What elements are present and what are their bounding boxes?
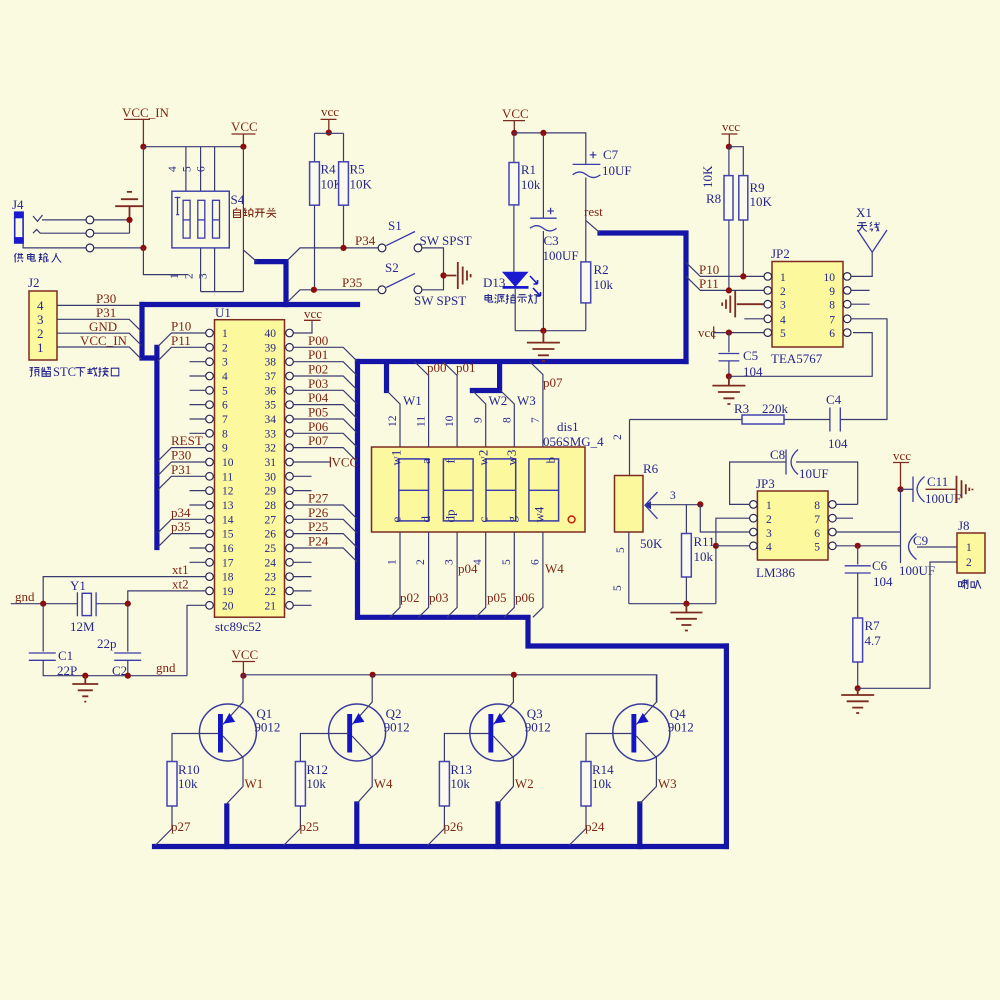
svg-text:W2: W2 [515,776,534,791]
header JP3 LM386 [756,476,828,580]
switch S1 [378,218,472,252]
svg-text:2: 2 [766,514,772,526]
wire J8 pin2 return [858,562,957,688]
pin circle U1-15 [206,530,214,538]
svg-text:30: 30 [265,471,277,483]
svg-text:37: 37 [265,371,277,383]
label p03 [429,590,449,605]
label P31 J2 [96,305,116,320]
svg-text:c: c [476,517,491,523]
label VCC U1 pin31 [332,455,359,470]
label W4 display [545,561,564,576]
svg-text:S2: S2 [385,260,399,275]
svg-text:6: 6 [196,166,208,172]
svg-text:2: 2 [415,559,427,565]
label 9 rotated [473,417,485,423]
wire rest bus entry [586,220,600,232]
wire U1 pin1 P10 [158,333,206,347]
wire U1 pin18 xt1 [43,577,206,604]
wire U1 pin17 stub [190,561,206,563]
label p34 U1 [171,505,191,520]
label W3 collector [658,776,677,791]
capacitor C8 [730,447,858,504]
pin circle U1-36 [286,387,294,395]
svg-text:p02: p02 [400,590,420,605]
svg-text:P30: P30 [171,448,191,463]
ground C5 [712,376,745,404]
wire U1 pin9 REST [158,448,206,462]
label 6 rotated [529,559,541,565]
label P06 [308,419,329,434]
label P11 [699,276,719,291]
pin circle U1-27 [286,516,294,524]
ground R7 [841,688,874,713]
svg-text:vcc: vcc [893,448,911,463]
svg-text:9012: 9012 [384,720,410,735]
svg-text:10K: 10K [750,194,773,209]
ground S1 S2 sideways [444,262,471,289]
wire S4 rail top [143,146,243,148]
label 预留STC下载接口 [30,365,119,379]
node VCC S4 junction [240,144,246,150]
svg-text:p05: p05 [487,590,507,605]
node C1 gnd junction [82,673,88,679]
svg-text:5: 5 [814,542,820,554]
label p00 [427,360,447,375]
label S4 pin1 [169,273,181,279]
svg-text:8: 8 [814,500,820,512]
capacitor C6 [845,546,893,618]
wire U1 pin34 P05 [293,419,357,433]
svg-text:10k: 10k [521,177,541,192]
svg-text:16: 16 [222,543,234,555]
wire amp gnd rail [629,603,716,605]
label U1 pin31 number [265,457,277,469]
svg-text:P10: P10 [171,319,191,334]
svg-text:6: 6 [829,328,835,340]
wire U1 pin5 stub [190,389,206,391]
svg-text:1: 1 [766,500,772,512]
svg-text:29: 29 [265,486,277,498]
svg-text:38: 38 [265,357,277,369]
resistor R2 [581,262,614,331]
svg-text:1: 1 [780,272,786,284]
svg-text:p01: p01 [456,360,476,375]
pin circle JP2-3 [764,300,772,308]
svg-text:1: 1 [966,542,972,554]
wire J2 pin1 VCC_IN [57,347,142,359]
svg-text:35: 35 [265,400,277,412]
svg-text:JP3: JP3 [756,476,775,491]
label p05 [487,590,507,605]
capacitor C3 [530,133,579,331]
label U1 pin32 number [265,443,277,455]
svg-text:W3: W3 [517,393,536,408]
power port VCC main [502,106,529,133]
svg-text:X1: X1 [856,205,872,220]
label U1 pin15 number [222,529,234,541]
label rest [584,204,603,219]
label 10 rotated [444,415,456,427]
transistor Q3 9012 [444,675,550,804]
label P04 [308,390,329,405]
wire JP3 pin5 [836,545,900,547]
svg-text:39: 39 [265,342,277,354]
wire U1 pin10 P30 [158,462,206,476]
wire display pin9 W2 [472,391,485,448]
svg-text:R6: R6 [643,461,659,476]
pin circle U1-4 [206,372,214,380]
svg-text:dp: dp [443,510,458,523]
svg-text:p34: p34 [171,505,191,520]
svg-text:50K: 50K [640,536,663,551]
wire U1 pin27 P26 [293,519,357,533]
label P26 [308,505,329,520]
label U1 pin26 number [265,529,277,541]
svg-text:31: 31 [265,457,277,469]
pin circle U1-29 [286,487,294,495]
svg-text:6: 6 [814,528,820,540]
pin circle U1-1 [206,329,214,337]
wire S4 pin3 bottom [214,248,216,292]
svg-text:vcc: vcc [321,104,339,119]
wire display pin1 [390,532,400,617]
pin circle JP3-1 [750,501,758,509]
svg-text:LM386: LM386 [756,565,796,580]
svg-text:P24: P24 [308,534,329,549]
svg-text:P10: P10 [699,262,719,277]
ground amp [670,604,702,631]
wire display pin2 p02 [419,532,429,617]
node vcc C5 junction [726,330,732,336]
label U1 pin21 number [265,600,277,612]
wire display pin7 p07 [530,362,543,448]
label P25 [308,519,328,534]
svg-text:23: 23 [265,572,277,584]
wire bus right vertical down [724,646,729,847]
transistor Q4 9012 [586,675,694,804]
ground inverted above J4 junction [115,192,144,220]
capacitor C5 [719,333,764,379]
label U1 pin7 number [222,414,228,426]
pin circle JP3-6 [829,528,837,536]
svg-text:15: 15 [222,529,234,541]
wire R6 wiper [645,504,700,506]
svg-text:32: 32 [265,443,277,455]
digit 1 [399,459,429,521]
svg-text:33: 33 [265,428,277,440]
svg-text:STC: STC [53,365,76,379]
ground power indicator [527,331,560,361]
ground crystal [72,676,98,702]
transistor Q2 9012 [300,675,409,804]
svg-text:R9: R9 [750,180,765,195]
label U1 pin33 number [265,428,277,440]
wire VCC emitter rail [243,675,656,703]
svg-text:10k: 10k [594,277,614,292]
digit 3 [486,459,516,521]
svg-text:7: 7 [814,514,820,526]
svg-text:S4: S4 [231,192,245,207]
wire bus top-right rest net [600,233,686,362]
svg-text:36: 36 [265,385,277,397]
pin circle U1-18 [206,573,214,581]
wire U1 pin2 P11 [158,347,206,361]
svg-text:10K: 10K [350,177,373,192]
pin circle U1-35 [286,401,294,409]
label U1 pin18 number [222,572,234,584]
capacitor C7 [573,147,632,262]
node vcc C11 [897,486,903,492]
label P01 [308,347,328,362]
svg-text:P01: P01 [308,347,328,362]
power port vcc JP2 pin5 [698,325,764,340]
svg-text:P02: P02 [308,362,328,377]
svg-text:22: 22 [265,586,277,598]
label xt1 [172,562,189,577]
wire U1 pin22 stub [293,590,311,592]
label U1 pin34 number [265,414,277,426]
wire JP2 pin9 stub [851,289,870,291]
label P03 [308,376,328,391]
svg-text:TEA5767: TEA5767 [771,351,823,366]
label P27 [308,491,329,506]
node R8 P11 [726,287,732,293]
svg-text:SW SPST: SW SPST [420,233,472,248]
svg-text:P06: P06 [308,419,329,434]
svg-text:p27: p27 [171,819,191,834]
diode D13 LED [483,272,541,331]
connector J2 [28,275,57,360]
label p04 [458,561,478,576]
svg-text:28: 28 [265,500,277,512]
svg-text:25: 25 [265,543,277,555]
pin circle U1-28 [286,501,294,509]
svg-text:3: 3 [766,528,772,540]
svg-text:VCC_IN: VCC_IN [80,333,128,348]
wire JP2 pin4 stub [744,318,764,320]
svg-text:W1: W1 [245,776,264,791]
wire S4 pin5 top [200,147,202,192]
label 3 rotated [444,559,456,565]
capacitor C2 [97,604,141,678]
wire S4 pin4 top [185,147,187,192]
connector J4 [12,197,24,243]
svg-text:17: 17 [222,557,234,569]
svg-text:xt1: xt1 [172,562,189,577]
resistor R13 [428,762,473,846]
node vcc R4R5 [326,130,332,136]
label W2 collector [515,776,534,791]
pin circle U1-10 [206,458,214,466]
transistor Q1 9012 [172,675,280,804]
svg-text:VCC: VCC [502,106,529,121]
wire S1 to ground [422,248,444,276]
wire U1 pin31 VCC [293,457,330,467]
label p02 [400,590,420,605]
label U1 pin27 number [265,514,277,526]
pin circle U1-24 [286,559,294,567]
pin circle JP3-3 [750,528,758,536]
label U1 pin5 number [222,385,228,397]
svg-text:10K: 10K [700,165,715,188]
pin circle U1-34 [286,415,294,423]
wire JP2 pin8 stub [851,303,870,305]
label 4 rotated [472,559,484,565]
label U1 pin35 number [265,400,277,412]
pin circle U1-22 [286,587,294,595]
svg-text:W4: W4 [374,776,393,791]
svg-text:3: 3 [444,559,456,565]
svg-text:2: 2 [184,273,196,279]
wire U1 pin28 P27 [293,505,357,519]
power port VCC transistors [232,647,259,676]
svg-text:26: 26 [265,529,277,541]
label wiper 3 [670,490,676,502]
label 5 rotated [501,559,513,565]
label P10 U1 [171,319,191,334]
crystal Y1 [43,578,128,634]
capacitor C4 [826,392,848,451]
label W1 [403,393,422,408]
svg-text:10k: 10k [450,776,470,791]
svg-text:9: 9 [829,286,835,298]
label 天线 [857,222,880,232]
wire display pin4 p04 [476,532,486,617]
wire U1 pin7 stub [190,418,206,420]
svg-text:p26: p26 [443,819,463,834]
svg-text:C7: C7 [603,147,619,162]
svg-text:10k: 10k [178,776,198,791]
label a seg [418,458,433,464]
digit 2 [443,459,473,521]
wire bus stub W2 W3 [472,364,499,391]
svg-text:p35: p35 [171,519,191,534]
wire U1 pin29 stub [293,490,311,492]
wire U1 pin38 P01 [293,362,357,376]
svg-text:J2: J2 [28,275,40,290]
label p01 [456,360,476,375]
svg-text:C6: C6 [872,558,888,573]
wire U1 pin33 P06 [293,433,357,447]
svg-text:b: b [543,457,558,464]
svg-text:R14: R14 [592,762,614,777]
label p25 [299,819,319,834]
node Q2 emitter [370,672,376,678]
svg-text:P05: P05 [308,405,328,420]
power port vcc U1 pin40 [304,306,322,321]
label W3 [517,393,536,408]
svg-text:3: 3 [222,357,228,369]
svg-text:W3: W3 [658,776,677,791]
label U1 pin13 number [222,500,234,512]
pin circle J4-1 [86,216,94,224]
label W2 [489,393,508,408]
wire display pin11 p00 [414,362,428,448]
svg-text:C5: C5 [743,348,758,363]
label 8 rotated [501,417,513,423]
svg-text:2: 2 [37,326,44,341]
wire JP3 pin4 [716,545,750,547]
label gnd right [156,660,176,675]
svg-text:GND: GND [89,319,117,334]
label U1 pin2 number [222,342,228,354]
wire U1 pin35 P04 [293,405,357,419]
wire bus display bottom [358,617,727,646]
svg-text:4: 4 [766,542,772,554]
svg-text:2: 2 [612,434,624,440]
svg-text:U1: U1 [215,305,231,320]
wire display pin12 W1 [387,391,401,448]
wire J4 pin3 to VCC_IN net [94,247,144,249]
wire U1 pin26 P25 [293,534,357,548]
resistor R12 [284,762,329,846]
svg-text:9012: 9012 [668,720,694,735]
wire bus stub under Q4 [637,804,642,847]
svg-text:10UF: 10UF [799,466,829,481]
wire P11 [686,276,764,290]
switch S4 [172,191,245,248]
svg-text:6: 6 [529,559,541,565]
svg-text:6: 6 [222,400,228,412]
power port VCC (S4) [231,119,258,147]
wire J4 sleeve [23,243,86,248]
svg-text:10: 10 [222,457,234,469]
label P11 U1 [171,333,191,348]
svg-text:4: 4 [167,166,179,172]
label 1 rotated [387,559,399,565]
resistor R8 [706,147,733,291]
pin circle U1-16 [206,544,214,552]
svg-text:14: 14 [222,514,234,526]
svg-text:P35: P35 [342,275,362,290]
label U1 pin20 number [222,600,234,612]
label w4 seg [532,506,547,522]
wire bus J2 left vertical [142,305,157,548]
label U1 pin12 number [222,486,234,498]
wire JP3 pin2 gnd [716,518,750,604]
svg-text:dis1: dis1 [557,419,579,434]
resistor R7 [853,618,881,688]
decimal point circle [568,516,575,523]
label S4 pin2 [184,273,196,279]
label p27 [171,819,191,834]
label w2 seg [476,450,491,466]
svg-text:P07: P07 [308,433,329,448]
pin circle JP3-2 [750,514,758,522]
label U1 pin10 number [222,457,234,469]
svg-text:vcc: vcc [722,119,740,134]
pin circle U1-13 [206,501,214,509]
wire S4 pin2 bottom [200,248,202,292]
pin circle U1-31 [286,458,294,466]
node wiper junction [697,501,703,507]
svg-text:REST: REST [171,433,203,448]
svg-text:w1: w1 [389,450,404,466]
wire U1 pin39 P00 [293,347,357,361]
label U1 pin19 number [222,586,234,598]
svg-text:f: f [443,459,458,464]
svg-text:100UF: 100UF [543,248,579,263]
pin circle U1-38 [286,358,294,366]
label 7 rotated [530,417,542,423]
pin circle U1-33 [286,430,294,438]
label P30 J2 [96,291,116,306]
pin circle U1-23 [286,573,294,581]
svg-text:1: 1 [222,328,228,340]
svg-text:3: 3 [780,300,786,312]
svg-text:p24: p24 [585,819,605,834]
